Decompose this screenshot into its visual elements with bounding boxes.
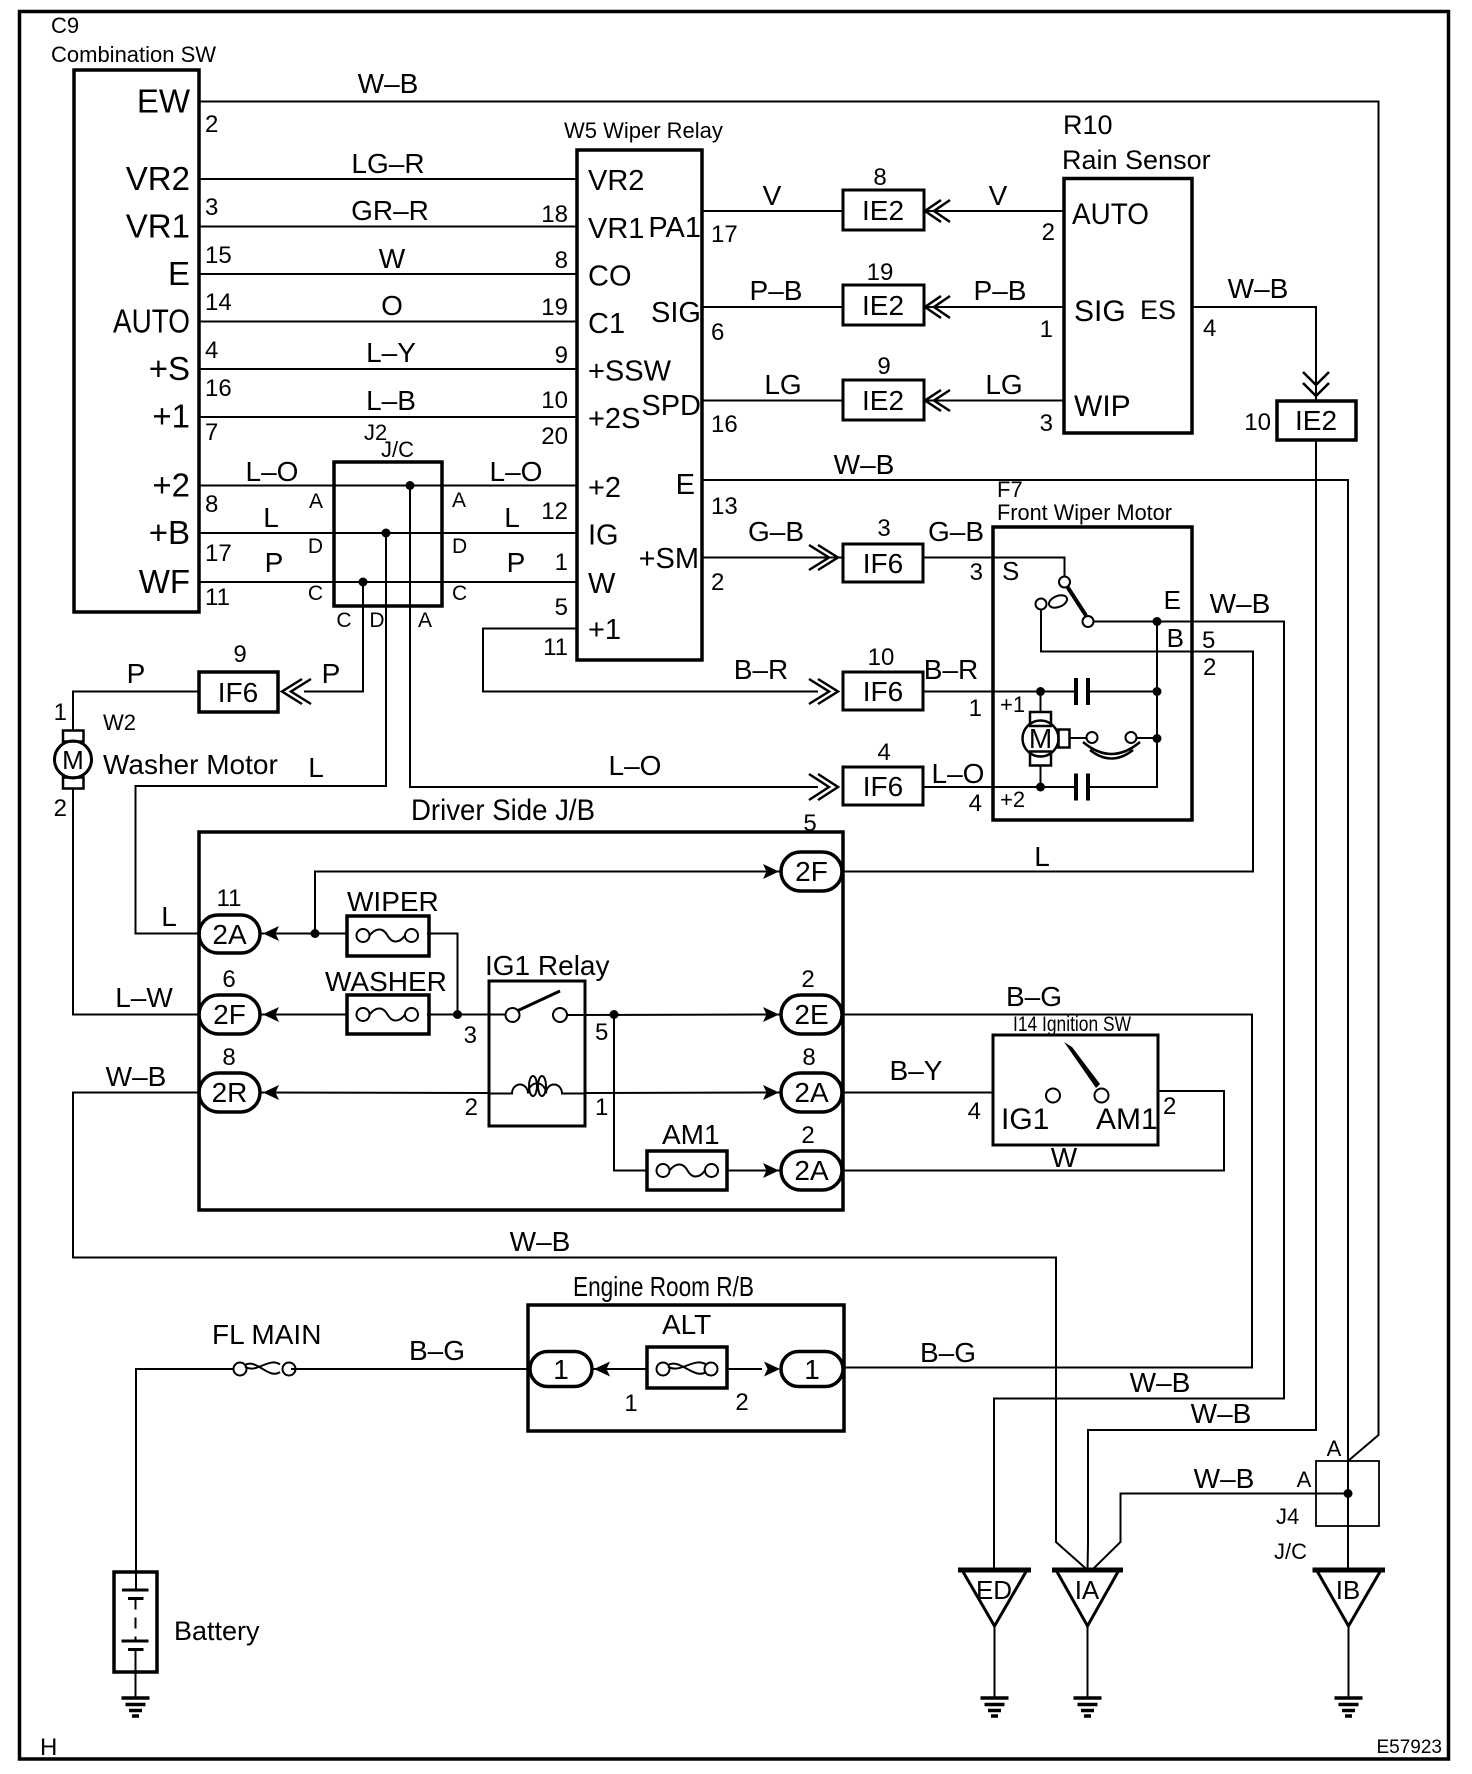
- wire washer pin2 L-W to 2F-6: [73, 789, 199, 1015]
- svg-text:3: 3: [205, 194, 218, 221]
- svg-text:1: 1: [1040, 316, 1053, 343]
- chevron arrow into IF6-4: [809, 774, 838, 800]
- svg-text:J/C: J/C: [1274, 1539, 1307, 1564]
- arrow into 2A-2: [763, 1163, 779, 1178]
- svg-text:4: 4: [969, 790, 982, 817]
- combination switch C9: [51, 13, 216, 612]
- svg-text:2: 2: [711, 569, 724, 596]
- svg-text:L: L: [1034, 841, 1050, 872]
- svg-text:14: 14: [205, 289, 232, 316]
- svg-text:8: 8: [205, 491, 218, 518]
- svg-text:C: C: [308, 582, 323, 605]
- svg-text:15: 15: [205, 242, 232, 269]
- wire PA1 V to IE2: [702, 210, 843, 212]
- svg-text:S: S: [1002, 556, 1019, 586]
- svg-text:8: 8: [802, 1044, 815, 1071]
- wire LG from rain sensor WIP: [924, 400, 1064, 402]
- svg-text:8: 8: [555, 247, 568, 274]
- chevron arrow into IF6-10: [809, 679, 838, 704]
- connector IE2 pin 8: [843, 164, 924, 230]
- svg-text:W–B: W–B: [510, 1226, 571, 1257]
- svg-text:+S: +S: [149, 350, 190, 387]
- svg-text:CO: CO: [588, 261, 632, 293]
- wire +2 L-O from J2 node A to IF6-4: [410, 486, 818, 788]
- svg-text:6: 6: [222, 966, 235, 993]
- connector IE2 pin 9: [843, 353, 924, 420]
- svg-text:1: 1: [555, 549, 568, 576]
- svg-text:SIG: SIG: [1074, 295, 1126, 328]
- svg-text:IG1 Relay: IG1 Relay: [485, 950, 610, 981]
- svg-text:2A: 2A: [794, 1155, 829, 1186]
- svg-text:IB: IB: [1336, 1575, 1361, 1605]
- svg-text:P: P: [507, 547, 526, 578]
- arrow into 2A-11: [263, 926, 279, 941]
- connector 2A pin 8: [781, 1044, 842, 1112]
- svg-text:Driver Side J/B: Driver Side J/B: [411, 794, 595, 827]
- svg-text:P: P: [127, 658, 146, 689]
- svg-text:B–G: B–G: [409, 1335, 465, 1366]
- node D dot on +B wire: [382, 529, 391, 538]
- svg-text:A: A: [309, 490, 323, 513]
- wire battery to FL MAIN: [136, 1369, 234, 1572]
- svg-text:C1: C1: [588, 308, 625, 340]
- svg-text:11: 11: [217, 885, 242, 912]
- svg-text:Washer Motor: Washer Motor: [103, 749, 278, 780]
- wire WIPER fuse to washer branch: [427, 934, 458, 1015]
- connector IF6 pin 3: [843, 515, 923, 582]
- connector IF6 pin 9: [199, 641, 278, 712]
- svg-text:4: 4: [968, 1098, 981, 1125]
- node dot relay5/AM1 branch: [610, 1010, 619, 1019]
- ground (IA): [1074, 1698, 1102, 1716]
- arrow into 1-left: [594, 1362, 610, 1377]
- svg-text:2A: 2A: [794, 1077, 829, 1108]
- battery: [114, 1572, 260, 1698]
- svg-text:D: D: [308, 535, 323, 558]
- svg-text:WF: WF: [139, 563, 190, 600]
- arrow into 2A-8: [763, 1085, 779, 1100]
- svg-text:W–B: W–B: [1210, 588, 1271, 619]
- svg-text:10: 10: [1244, 409, 1271, 436]
- relay IG1: [485, 950, 610, 1126]
- arrow into 2F-6: [263, 1007, 279, 1022]
- svg-text:ES: ES: [1140, 295, 1176, 325]
- node C dot on WF wire: [359, 578, 368, 587]
- wire VR1 GR-R: [199, 226, 577, 228]
- svg-text:IE2: IE2: [862, 195, 904, 226]
- svg-text:IF6: IF6: [863, 771, 903, 802]
- wire +1(11) B-R to IF6-10: [483, 629, 818, 692]
- svg-text:VR2: VR2: [126, 160, 190, 197]
- svg-text:IF6: IF6: [863, 548, 903, 579]
- svg-text:1: 1: [54, 699, 67, 726]
- wire +2 inside: [993, 786, 1076, 788]
- svg-text:9: 9: [233, 641, 246, 668]
- svg-text:G–B: G–B: [928, 516, 984, 547]
- wire +SM G-B to IF6-3: [702, 557, 843, 559]
- svg-text:AM1: AM1: [1096, 1103, 1158, 1136]
- wire +1 L-B: [199, 416, 577, 418]
- wire 2R to relay 2: [260, 1092, 489, 1095]
- svg-text:L: L: [161, 901, 177, 932]
- chevron arrow into IF6-9: [282, 679, 311, 704]
- wire SIG P-B to IE2: [702, 306, 843, 308]
- svg-text:WIP: WIP: [1074, 390, 1131, 423]
- svg-text:2: 2: [1163, 1093, 1176, 1120]
- svg-text:1: 1: [969, 695, 982, 722]
- capacitor C2 plates: [1076, 774, 1088, 801]
- svg-text:P–B: P–B: [974, 275, 1027, 306]
- wire WASHER fuse to IG1 relay: [427, 1014, 505, 1016]
- svg-text:E: E: [1164, 585, 1181, 615]
- svg-text:E: E: [168, 255, 190, 292]
- svg-text:3: 3: [1040, 410, 1053, 437]
- svg-text:SPD: SPD: [641, 390, 701, 422]
- svg-text:C: C: [336, 609, 351, 632]
- park switch off contact: [1036, 599, 1047, 610]
- vertical bus inside motor: [1156, 622, 1158, 739]
- svg-text:L–W: L–W: [115, 982, 173, 1013]
- ground triangle IA: [1052, 1570, 1123, 1698]
- svg-text:5: 5: [1202, 627, 1215, 654]
- svg-text:2F: 2F: [795, 856, 828, 887]
- svg-text:W: W: [379, 243, 406, 274]
- wire ES W-B down to IE2-10: [1192, 307, 1316, 401]
- connector IF6 pin 10: [843, 644, 923, 710]
- wire +S L-Y: [199, 368, 577, 370]
- svg-text:17: 17: [711, 221, 738, 248]
- node dot 2F-5 branch: [311, 929, 320, 938]
- svg-text:LG: LG: [764, 369, 801, 400]
- svg-text:J4: J4: [1276, 1504, 1299, 1529]
- svg-text:2: 2: [1203, 654, 1216, 681]
- svg-text:1: 1: [804, 1354, 820, 1385]
- svg-text:A: A: [1297, 1467, 1312, 1492]
- svg-text:IE2: IE2: [862, 290, 904, 321]
- wire WF P from J2 node C to IF6-9: [304, 582, 363, 692]
- svg-text:WASHER: WASHER: [325, 966, 447, 997]
- wire 2E B-G to engine room R/B: [843, 1015, 1252, 1368]
- svg-text:L–B: L–B: [366, 385, 416, 416]
- svg-text:W–B: W–B: [1130, 1367, 1191, 1398]
- svg-text:L: L: [504, 502, 520, 533]
- wire VR2 LG-R: [199, 178, 577, 180]
- wire AUTO O: [199, 321, 577, 323]
- wire V from rain sensor AUTO: [924, 210, 1064, 212]
- svg-text:7: 7: [205, 419, 218, 446]
- chevron arrow into IE2-9: [925, 390, 950, 411]
- wire 2A-11 to WIPER fuse: [260, 933, 347, 935]
- svg-text:2E: 2E: [794, 999, 828, 1030]
- svg-text:Front Wiper Motor: Front Wiper Motor: [997, 500, 1172, 525]
- fuse FL MAIN (fusible link): [212, 1319, 321, 1376]
- svg-text:11: 11: [543, 634, 568, 661]
- wire capacitor2 up to motor node: [1088, 739, 1157, 788]
- svg-text:Rain Sensor: Rain Sensor: [1062, 145, 1211, 175]
- svg-text:W: W: [588, 568, 616, 600]
- svg-text:L: L: [263, 502, 279, 533]
- park switch wiring from S: [993, 558, 1065, 577]
- ground (battery): [122, 1698, 150, 1716]
- svg-text:W5 Wiper Relay: W5 Wiper Relay: [564, 118, 723, 143]
- svg-text:E57923: E57923: [1376, 1737, 1442, 1758]
- svg-text:19: 19: [867, 259, 894, 286]
- svg-text:20: 20: [541, 423, 568, 450]
- park switch mid contact ellipse: [1047, 593, 1069, 610]
- svg-text:R10: R10: [1063, 110, 1113, 140]
- svg-text:2F: 2F: [213, 999, 246, 1030]
- wire B-G left to FL MAIN: [291, 1368, 528, 1370]
- wire AM1 W back to 2A-2: [843, 1091, 1224, 1171]
- svg-text:16: 16: [711, 411, 738, 438]
- fuse AM1: [647, 1119, 727, 1190]
- svg-text:V: V: [763, 180, 782, 211]
- node dot motor right: [1153, 734, 1162, 743]
- chevron arrow into IF6-3: [809, 545, 838, 570]
- washer motor W2: [55, 710, 278, 789]
- svg-text:B–Y: B–Y: [890, 1055, 943, 1086]
- wire W-B from J4 to IA: [1092, 1494, 1348, 1571]
- motor M armature W2 symbol: [1023, 692, 1070, 788]
- svg-text:Engine Room R/B: Engine Room R/B: [573, 1271, 754, 1302]
- wire +1 inside: [993, 691, 1076, 693]
- svg-text:+SM: +SM: [639, 543, 699, 575]
- svg-text:IG: IG: [588, 520, 619, 552]
- connector 1 right: [781, 1352, 843, 1387]
- wire SPD LG to IE2: [702, 400, 843, 402]
- fuse WIPER: [347, 886, 439, 956]
- svg-text:2: 2: [801, 966, 814, 993]
- svg-text:W–B: W–B: [834, 449, 895, 480]
- svg-text:IF6: IF6: [863, 676, 903, 707]
- park switch blade: [1068, 587, 1087, 616]
- commutator brush right: [1126, 732, 1137, 743]
- svg-text:E: E: [676, 469, 695, 501]
- ground triangle IB: [1313, 1570, 1386, 1698]
- svg-text:M: M: [1029, 723, 1052, 754]
- fuse ALT (fusible link): [647, 1309, 727, 1388]
- park switch top contact: [1059, 577, 1070, 588]
- svg-text:5: 5: [595, 1019, 608, 1046]
- wire WF P through J2: [199, 581, 577, 583]
- connector 2E pin 2: [781, 966, 842, 1034]
- wire E(5) W-B to ED: [994, 622, 1284, 1571]
- arrow into 1-right: [764, 1362, 780, 1377]
- wire E from switch: [1094, 621, 1193, 623]
- svg-text:EW: EW: [137, 83, 191, 120]
- svg-text:9: 9: [555, 342, 568, 369]
- svg-text:10: 10: [541, 387, 568, 414]
- svg-text:ALT: ALT: [662, 1309, 711, 1340]
- svg-text:17: 17: [205, 540, 232, 567]
- svg-text:2: 2: [205, 111, 218, 138]
- svg-text:VR1: VR1: [126, 208, 190, 245]
- svg-text:+2: +2: [152, 467, 190, 504]
- svg-text:5: 5: [555, 594, 568, 621]
- arrow into 2F-5: [763, 864, 779, 879]
- svg-text:IF6: IF6: [218, 677, 258, 708]
- svg-text:4: 4: [1203, 315, 1216, 342]
- svg-text:B–R: B–R: [924, 654, 978, 685]
- svg-text:LG: LG: [985, 369, 1022, 400]
- front wiper motor F7: [993, 477, 1192, 820]
- svg-text:W–B: W–B: [106, 1061, 167, 1092]
- svg-text:+SSW: +SSW: [588, 356, 672, 388]
- wire W-B from IE2-10 down to IA junction: [1088, 440, 1317, 1570]
- wire 2A-8 B-Y to ignition: [843, 1092, 993, 1094]
- svg-text:W: W: [1051, 1142, 1078, 1173]
- svg-text:AUTO: AUTO: [1072, 198, 1149, 231]
- svg-text:19: 19: [541, 294, 568, 321]
- connector IF6 pin 4: [843, 739, 923, 805]
- svg-text:11: 11: [205, 584, 230, 611]
- wire to ALT fuse: [592, 1368, 647, 1370]
- svg-text:+1: +1: [588, 614, 621, 646]
- svg-text:2A: 2A: [212, 919, 247, 950]
- svg-text:2: 2: [1042, 219, 1055, 246]
- ground triangle ED: [958, 1570, 1031, 1698]
- connector 2A pin 11: [199, 885, 260, 953]
- node dot washer/wiper join: [453, 1010, 462, 1019]
- svg-text:SIG: SIG: [651, 297, 701, 329]
- svg-text:B: B: [1167, 623, 1184, 653]
- svg-text:GR–R: GR–R: [351, 195, 429, 226]
- junction block J4 J/C: [1274, 1461, 1379, 1564]
- node dot E: [1153, 617, 1162, 626]
- ignition switch I14: [993, 1013, 1158, 1145]
- svg-text:4: 4: [877, 739, 890, 766]
- svg-text:1: 1: [624, 1390, 637, 1417]
- svg-text:+1: +1: [152, 398, 190, 435]
- svg-text:IG1: IG1: [1001, 1103, 1049, 1136]
- svg-text:5: 5: [803, 810, 816, 837]
- wire AM1 fuse to 2A-2: [727, 1170, 781, 1172]
- ground (IB): [1335, 1698, 1363, 1716]
- svg-text:AUTO: AUTO: [113, 303, 190, 340]
- wire 2R W-B to bottom IA run: [73, 1093, 1088, 1571]
- arrow into 2E: [763, 1007, 779, 1022]
- svg-text:2: 2: [801, 1122, 814, 1149]
- svg-text:B–G: B–G: [1006, 981, 1062, 1012]
- wire E W: [199, 273, 577, 275]
- svg-text:+B: +B: [149, 514, 190, 551]
- wiper relay W5: [564, 118, 723, 660]
- svg-text:M: M: [62, 745, 84, 775]
- svg-text:B–R: B–R: [734, 654, 788, 685]
- svg-text:P: P: [322, 658, 341, 689]
- svg-text:I14 Ignition SW: I14 Ignition SW: [1013, 1013, 1131, 1036]
- connector IE2 pin 10: [1244, 401, 1356, 440]
- wire L from J2 node D to 2A-11: [136, 533, 387, 934]
- connector 2F pin 6: [199, 966, 260, 1034]
- svg-text:FL MAIN: FL MAIN: [212, 1319, 321, 1350]
- svg-text:1: 1: [553, 1354, 569, 1385]
- svg-text:L–O: L–O: [490, 456, 543, 487]
- svg-text:Combination SW: Combination SW: [51, 42, 216, 67]
- svg-text:A: A: [418, 609, 432, 632]
- wire +B L through J2: [199, 532, 577, 534]
- wire P-B from rain sensor SIG: [924, 306, 1064, 308]
- svg-text:6: 6: [711, 319, 724, 346]
- svg-text:L–O: L–O: [932, 758, 985, 789]
- svg-text:3: 3: [464, 1022, 477, 1049]
- wire relay 1 to 2A-8: [585, 1092, 781, 1095]
- park switch lower contact: [1083, 616, 1094, 627]
- svg-text:2: 2: [465, 1094, 478, 1121]
- commutator arcs: [1083, 742, 1140, 754]
- node A dot on +2 wire: [406, 481, 415, 490]
- svg-text:IA: IA: [1075, 1575, 1100, 1605]
- svg-text:10: 10: [868, 644, 895, 671]
- svg-text:Battery: Battery: [174, 1616, 260, 1646]
- svg-text:VR1: VR1: [588, 213, 644, 245]
- chevron arrow into IE2-8: [925, 200, 950, 222]
- svg-text:LG–R: LG–R: [351, 148, 424, 179]
- wire 2F-6 to WASHER fuse: [260, 1014, 347, 1016]
- wire G-B to wiper motor S: [923, 557, 993, 559]
- svg-text:IE2: IE2: [862, 385, 904, 416]
- svg-text:W–B: W–B: [1194, 1463, 1255, 1494]
- wire capacitor to E node: [1088, 691, 1157, 693]
- driver side J/B: [199, 794, 843, 1210]
- svg-text:VR2: VR2: [588, 165, 644, 197]
- node dot +2 left: [1036, 783, 1045, 792]
- svg-text:F7: F7: [997, 477, 1023, 502]
- svg-text:+2: +2: [1000, 787, 1025, 812]
- connector 2R pin 8: [199, 1044, 260, 1112]
- node dot +1 left: [1036, 687, 1045, 696]
- svg-text:A: A: [1327, 1436, 1342, 1461]
- svg-text:V: V: [989, 180, 1008, 211]
- svg-text:J/C: J/C: [381, 437, 414, 462]
- svg-text:W–B: W–B: [1228, 273, 1289, 304]
- svg-text:9: 9: [877, 353, 890, 380]
- svg-text:L: L: [308, 752, 324, 783]
- wire E(13) W-B down to J4: [702, 480, 1348, 1570]
- svg-text:L–Y: L–Y: [366, 337, 416, 368]
- wire L-O to wiper motor +2: [923, 786, 993, 788]
- svg-text:A: A: [452, 489, 466, 512]
- svg-text:D: D: [369, 609, 384, 632]
- svg-text:C: C: [452, 582, 467, 605]
- svg-text:4: 4: [205, 337, 218, 364]
- svg-text:D: D: [452, 535, 467, 558]
- wire P to washer motor: [73, 692, 199, 731]
- chevron arrow down into IE2-10: [1303, 372, 1329, 396]
- svg-text:WIPER: WIPER: [347, 886, 439, 917]
- arrow into 2R: [263, 1085, 279, 1100]
- svg-text:AM1: AM1: [662, 1119, 720, 1150]
- ground (ED): [981, 1698, 1009, 1716]
- svg-text:3: 3: [877, 515, 890, 542]
- wire branch down to AM1 fuse: [614, 1015, 647, 1171]
- svg-text:H: H: [40, 1734, 57, 1761]
- svg-text:L–O: L–O: [246, 456, 299, 487]
- svg-text:2: 2: [735, 1389, 748, 1416]
- svg-text:8: 8: [873, 164, 886, 191]
- svg-text:+2: +2: [588, 472, 621, 504]
- wire B-R to wiper motor +1: [923, 691, 993, 693]
- capacitor C1 plates: [1076, 678, 1088, 705]
- svg-text:16: 16: [205, 375, 232, 402]
- svg-text:1: 1: [595, 1094, 608, 1121]
- connector 2F pin 5: [781, 810, 842, 891]
- svg-text:G–B: G–B: [748, 516, 804, 547]
- wire up to 2F-5: [315, 872, 781, 934]
- svg-text:C9: C9: [51, 13, 79, 38]
- connector IE2 pin 19: [843, 259, 924, 325]
- node dot right of capacitor: [1153, 687, 1162, 696]
